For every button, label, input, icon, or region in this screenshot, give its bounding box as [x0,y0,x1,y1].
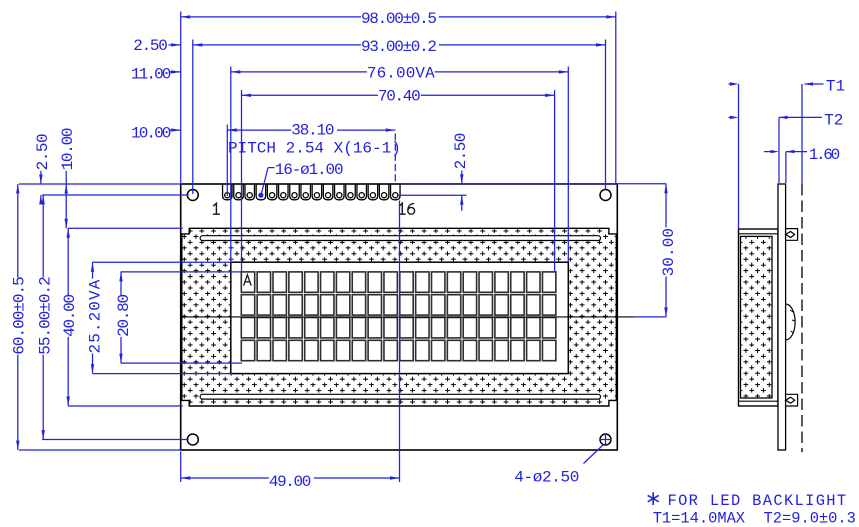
svg-text:1.60: 1.60 [809,146,840,164]
horizontal centerline [182,316,634,318]
backlight/bezel plate with crosshatch [182,228,617,406]
PCB outline (front view) [181,184,618,450]
svg-text:93.00±0.2: 93.00±0.2 [361,38,436,56]
svg-text:10.00: 10.00 [131,124,171,142]
svg-text:2.50: 2.50 [452,133,470,169]
svg-text:49.00: 49.00 [269,473,311,491]
svg-text:2.50: 2.50 [133,37,167,55]
mounting hole bottom-left [187,434,198,445]
1.60 dimension (PCB thickness) [785,152,787,183]
svg-text:30.00: 30.00 [660,228,678,277]
dimension 25.20VA [92,262,94,279]
dimension 49.00 [180,452,182,483]
svg-text:38.10: 38.10 [291,122,334,140]
dimension 76.00VA [231,71,367,73]
extension lines vertical (top) [180,12,182,184]
svg-text:PITCH 2.54 X(16-1): PITCH 2.54 X(16-1) [228,139,401,157]
backlight bump (half ellipse) [786,304,796,340]
pin 1 label [213,203,220,214]
svg-text:T1: T1 [826,78,845,96]
dimension 38.10 [227,129,291,131]
svg-text:4-ø2.50: 4-ø2.50 [514,469,579,487]
svg-text:98.00±0.5: 98.00±0.5 [361,10,436,28]
dimension 10.00 (top-left vertical) [65,171,67,229]
side view PCB [778,184,786,450]
dimension 2.50 (pin row offset, right) [401,183,666,185]
svg-text:16-ø1.00: 16-ø1.00 [275,161,343,179]
bezel tab top [786,229,798,241]
svg-text:55.00±0.2: 55.00±0.2 [36,277,54,355]
svg-text:25.20VA: 25.20VA [87,279,105,354]
dimension 55.00±0.2 [42,195,44,278]
bottom slot [200,394,600,399]
left side extension lines [19,183,182,185]
svg-text:T1=14.0MAX T2=9.0±0.3: T1=14.0MAX T2=9.0±0.3 [653,510,856,527]
dimension 40.00 [67,228,69,295]
16 pin pads [223,184,400,200]
svg-text:76.00VA: 76.00VA [367,65,435,83]
mounting hole top-right [600,190,611,201]
T2 dimension [778,117,780,183]
mounting hole top-left [187,190,198,201]
side view LCD stack outline [739,229,779,406]
character cell grid 20x4 [241,272,556,361]
display window (VA) [231,262,569,373]
svg-text:FOR LED BACKLIGHT: FOR LED BACKLIGHT [668,492,848,510]
top slot [200,236,600,241]
dimension 11.00 [169,71,181,73]
side view crosshatch (LCD glass) [741,236,773,398]
svg-text:40.00: 40.00 [61,294,79,336]
svg-text:11.00: 11.00 [131,65,171,83]
svg-text:2.50: 2.50 [34,134,52,171]
dimension 93.00±0.2 [193,44,361,46]
dimension 20.80 [120,272,122,295]
svg-text:10.00: 10.00 [59,128,77,170]
dimension 2.50 (top left, hole offset) [169,44,181,46]
dimension 70.40 [242,94,378,96]
label 16-ø1.00 with leader to pin 4 [268,167,275,169]
letter A in first cell [244,275,252,286]
dimension 10.00 [169,129,181,131]
pin 16 label [399,203,406,214]
dimension 98.00±0.5 [181,16,361,18]
mounting hole bottom-right with cross [600,434,611,445]
svg-text:70.40: 70.40 [378,88,420,106]
svg-text:20.80: 20.80 [115,294,133,336]
T1 max envelope dashed line [801,184,803,452]
svg-text:T2: T2 [824,112,843,130]
dimension 2.50 (top-left vertical) [40,171,42,184]
dimension 30.00 (right side) [634,316,666,318]
label 4-ø2.50 with leader [584,445,604,464]
dimension 60.00±0.5 [17,184,19,278]
footer note: FOR LED BACKLIGHT [648,492,659,505]
svg-text:60.00±0.5: 60.00±0.5 [11,277,29,355]
bezel tab bottom [786,394,798,406]
T1 dimension [738,84,740,229]
